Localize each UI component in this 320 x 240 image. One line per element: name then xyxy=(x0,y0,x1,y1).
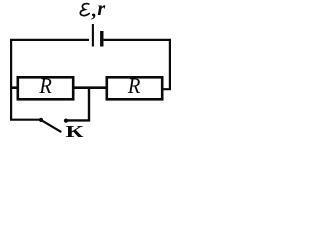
svg-text:,: , xyxy=(91,0,96,22)
svg-text:r: r xyxy=(97,0,105,20)
svg-text:К: К xyxy=(65,122,84,138)
svg-text:R: R xyxy=(38,73,51,98)
svg-text:R: R xyxy=(127,73,140,98)
